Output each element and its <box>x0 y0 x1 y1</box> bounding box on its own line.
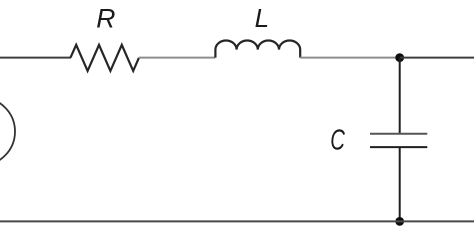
svg-text:C: C <box>330 124 345 156</box>
voltage source VS (partial circle at left edge) <box>0 98 15 166</box>
capacitor C bottom plate <box>370 146 427 148</box>
node: top junction dot <box>395 53 404 62</box>
resistor R <box>71 45 139 71</box>
wire: top node to right edge <box>400 57 474 59</box>
wire: capacitor down to bottom node <box>399 147 401 221</box>
wire: left edge to resistor <box>0 57 71 59</box>
svg-text:R: R <box>96 4 115 34</box>
wire: inductor to top node <box>300 57 396 59</box>
capacitor C top plate <box>370 133 427 135</box>
svg-text:L: L <box>255 3 269 33</box>
node: bottom junction dot <box>395 217 404 226</box>
wire: top node down to capacitor <box>399 58 401 134</box>
wire: resistor to inductor <box>139 57 215 59</box>
wire: bottom rail <box>0 220 474 222</box>
inductor L <box>215 40 300 57</box>
